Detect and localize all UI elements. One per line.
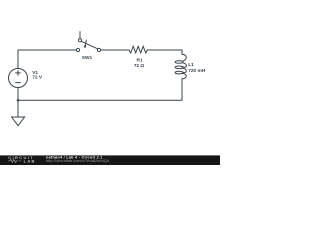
svg-text:L1: L1 bbox=[188, 62, 194, 68]
svg-text:72 Ω: 72 Ω bbox=[134, 63, 145, 69]
svg-text:SW1: SW1 bbox=[82, 55, 93, 61]
svg-text:R1: R1 bbox=[137, 58, 143, 64]
svg-text:LAB: LAB bbox=[24, 158, 36, 163]
svg-text:720 mH: 720 mH bbox=[188, 68, 206, 74]
svg-text:http://circuitlab.com/c/7mu62n: http://circuitlab.com/c/7mu62nh4Q4 bbox=[46, 159, 109, 163]
svg-text:72 V: 72 V bbox=[32, 75, 43, 81]
